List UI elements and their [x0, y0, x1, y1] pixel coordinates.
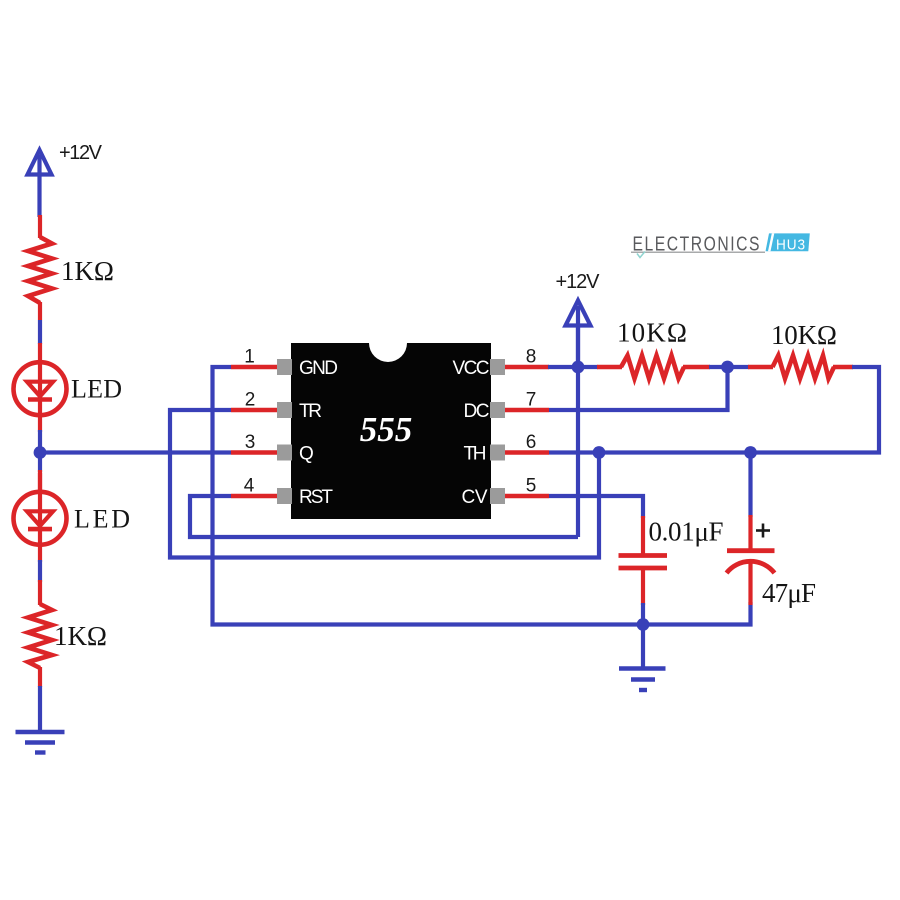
- svg-text:555: 555: [360, 410, 413, 449]
- wire LED2 to R2: [38, 560, 42, 582]
- pin1 lead: [231, 365, 278, 369]
- wire node A to LED2: [38, 470, 42, 494]
- pin pad 3: [277, 445, 292, 461]
- resistor 1KΩ top-left: [28, 237, 52, 303]
- svg-text:TR: TR: [299, 401, 322, 422]
- pin8 lead: [504, 365, 549, 369]
- pin pad 4: [277, 488, 292, 504]
- power +12V left arrow: [28, 150, 52, 217]
- svg-text:47μF: 47μF: [762, 578, 816, 608]
- junction node A (LED string to Q): [34, 446, 47, 459]
- svg-text:GND: GND: [299, 358, 338, 379]
- pin pad 6: [490, 445, 505, 461]
- svg-text:RST: RST: [299, 487, 333, 508]
- wire R1 to LED1: [38, 320, 42, 344]
- wire +12V to R1: [38, 215, 42, 238]
- wire pin7 DC to node B: [549, 367, 728, 410]
- svg-text:LED: LED: [74, 505, 130, 534]
- junction ground node: [637, 618, 650, 631]
- LED D1: [14, 343, 67, 432]
- junction TH-cap node: [744, 446, 757, 459]
- power +12V right arrow: [566, 301, 591, 370]
- resistor 10KΩ second: [748, 356, 853, 379]
- wire node B to R10K2: [728, 365, 750, 369]
- lead R2 top: [38, 580, 42, 605]
- wire pin5 CV to cap 0.01uF: [549, 496, 643, 518]
- svg-text:1: 1: [244, 347, 255, 368]
- svg-text:DC: DC: [464, 401, 490, 422]
- IC U1 555 body: [291, 324, 491, 519]
- polarity plus sign: [756, 524, 770, 538]
- svg-text:0.01μF: 0.01μF: [649, 517, 724, 547]
- svg-text:CV: CV: [462, 487, 488, 508]
- wire R10K1 to node B: [709, 365, 728, 369]
- lead R1 bottom: [38, 302, 42, 320]
- svg-text:1KΩ: 1KΩ: [54, 621, 107, 651]
- ground left: [16, 732, 65, 753]
- pin pad 1: [277, 359, 292, 375]
- wire R10K2 right end down to TH rail: [549, 367, 879, 453]
- ground center: [619, 669, 666, 691]
- capacitor 47uF polarized: [727, 515, 775, 605]
- svg-text:+12V: +12V: [556, 271, 601, 293]
- wire TH node down to cap 47uF: [748, 453, 752, 518]
- junction node B (R1-R2-DC): [721, 361, 734, 374]
- pin pad 2: [277, 402, 292, 418]
- wire LED1 to node A: [38, 430, 42, 472]
- svg-text:2: 2: [245, 390, 256, 411]
- svg-text:HU3: HU3: [776, 237, 806, 254]
- pin7 lead: [504, 408, 549, 412]
- svg-text:3: 3: [245, 432, 256, 453]
- svg-text:4: 4: [244, 476, 255, 497]
- wire pin8 to +12V rail: [548, 365, 598, 369]
- svg-text:Q: Q: [299, 444, 314, 465]
- wire cap 0.01uF to ground rail: [641, 603, 645, 626]
- lead R2 bottom: [38, 667, 42, 687]
- svg-text:LED: LED: [71, 375, 122, 404]
- svg-text:5: 5: [526, 476, 537, 497]
- svg-text:6: 6: [526, 432, 537, 453]
- wire pin1 GND loop to bottom rail: [213, 367, 751, 625]
- pin3 lead: [231, 450, 278, 454]
- svg-text:+12V: +12V: [59, 142, 103, 164]
- junction VCC node: [572, 361, 585, 374]
- svg-text:10KΩ: 10KΩ: [617, 318, 687, 348]
- pin2 lead: [231, 408, 278, 412]
- pin pad 8: [490, 359, 505, 375]
- wire R2 to ground: [38, 686, 42, 731]
- wire pin3 Q to node A: [40, 450, 231, 454]
- svg-text:8: 8: [526, 347, 537, 368]
- wire ground node down: [641, 625, 645, 669]
- pin pad 5: [490, 488, 505, 504]
- pin5 lead: [504, 494, 549, 498]
- junction TH-TR node: [593, 446, 606, 459]
- resistor 1KΩ bottom-left: [28, 604, 52, 668]
- capacitor 0.01uF: [619, 516, 668, 605]
- LED D2: [14, 473, 67, 562]
- wire +12V rail down to RST wire: [576, 325, 580, 537]
- svg-text:1KΩ: 1KΩ: [61, 256, 114, 286]
- pin6 lead: [504, 450, 549, 454]
- pin4 lead: [231, 494, 278, 498]
- svg-text:7: 7: [526, 390, 537, 411]
- svg-text:10KΩ: 10KΩ: [771, 320, 837, 350]
- pin pad 7: [490, 402, 505, 418]
- logo ElectronicsHub: [631, 232, 810, 257]
- svg-text:VCC: VCC: [453, 358, 490, 379]
- resistor 10KΩ first: [597, 356, 710, 379]
- wire pin4 RST to +12V rail: [190, 496, 578, 537]
- svg-text:TH: TH: [464, 444, 487, 465]
- wire pin2 TR to TH: [170, 410, 599, 558]
